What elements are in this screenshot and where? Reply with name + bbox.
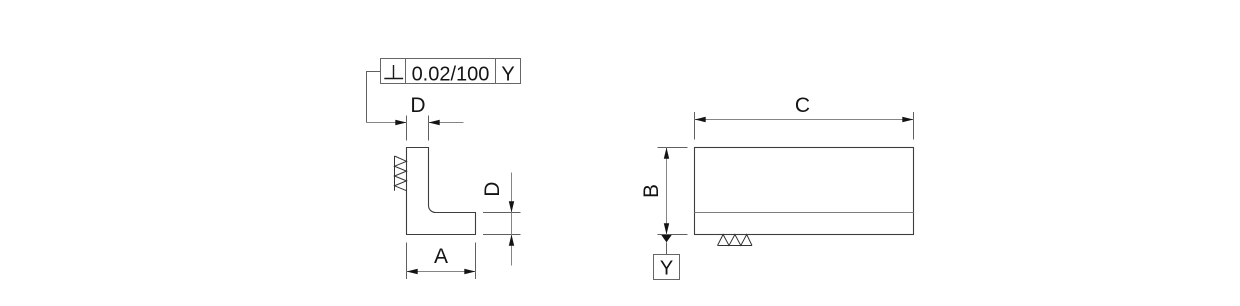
surface hatch triangles under bottom face (side view) bbox=[718, 235, 753, 246]
svg-text:A: A bbox=[434, 245, 448, 268]
feature control frame outline bbox=[381, 59, 521, 84]
datum letter box Y bbox=[654, 255, 680, 280]
svg-text:Y: Y bbox=[501, 63, 514, 85]
dimension B extension line bottom bbox=[658, 234, 688, 236]
dimension D (right) dimension line bbox=[511, 173, 513, 266]
perpendicularity symbol bbox=[384, 65, 403, 79]
svg-text:Y: Y bbox=[660, 257, 673, 279]
leader line from feature control frame to D dimension line bbox=[367, 72, 381, 123]
dimension C dimension line bbox=[695, 119, 914, 121]
datum leader line to box bbox=[666, 242, 668, 254]
dimension C extension line right bbox=[913, 112, 915, 140]
dimension B bottom arrowhead bbox=[664, 223, 669, 234]
datum feature triangle (filled) on bottom extension line bbox=[661, 235, 671, 242]
svg-text:D: D bbox=[481, 182, 504, 197]
dimension D (right) extension line top bbox=[483, 212, 521, 214]
rectangular part outline (side view) bbox=[695, 148, 914, 235]
dimension A left arrowhead bbox=[407, 269, 418, 274]
dimension B dimension line bbox=[666, 148, 668, 235]
dimension D (top) extension line right bbox=[428, 116, 430, 141]
dimension C extension line left bbox=[694, 112, 696, 140]
dimension D (top) extension line left bbox=[406, 116, 408, 141]
dimension A dimension line bbox=[407, 271, 476, 273]
dimension A extension line right bbox=[475, 243, 477, 280]
dimension D (top) dimension line right segment bbox=[429, 122, 464, 124]
svg-text:B: B bbox=[640, 184, 663, 198]
dimension A right arrowhead bbox=[464, 269, 475, 274]
dimension D (top) left arrowhead bbox=[395, 120, 406, 125]
dimension A extension line left bbox=[406, 243, 408, 280]
svg-text:0.02/100: 0.02/100 bbox=[412, 63, 490, 85]
feature control frame divider 2 bbox=[495, 59, 497, 84]
L-shape part outline (front view) bbox=[407, 148, 476, 235]
dimension C left arrowhead bbox=[695, 117, 706, 122]
dimension D (right) extension line bottom bbox=[483, 234, 521, 236]
dimension D (right) lower arrowhead bbox=[509, 235, 514, 246]
feature control frame divider 1 bbox=[405, 59, 407, 84]
svg-text:C: C bbox=[795, 94, 810, 117]
svg-text:D: D bbox=[410, 94, 425, 117]
dimension D (top) dimension line left segment bbox=[367, 122, 407, 124]
dimension C right arrowhead bbox=[902, 117, 913, 122]
dimension D (right) upper arrowhead bbox=[509, 201, 514, 212]
surface hatch triangles on left datum face bbox=[395, 156, 407, 191]
dimension B top arrowhead bbox=[664, 148, 669, 159]
bottom leg edge line in side view bbox=[695, 212, 914, 214]
dimension B extension line top bbox=[658, 147, 688, 149]
dimension D (top) right arrowhead bbox=[429, 120, 440, 125]
